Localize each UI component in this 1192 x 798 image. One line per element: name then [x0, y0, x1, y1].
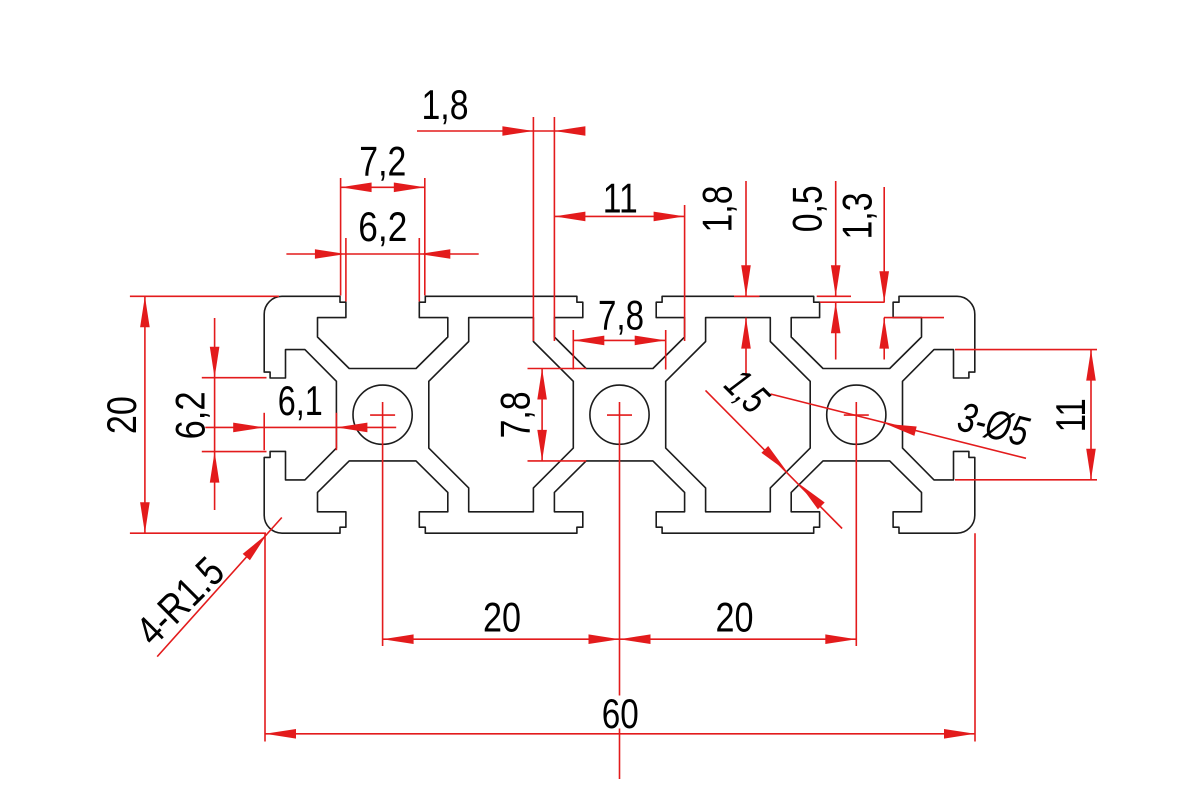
dim 7,2: [341, 186, 425, 188]
dim 1,5 diagonal: [706, 390, 843, 528]
svg-text:7,8: 7,8: [492, 391, 539, 438]
ext line 11 top right: [684, 205, 686, 341]
ext lines 6,1: [263, 413, 265, 450]
svg-text:1,8: 1,8: [422, 81, 469, 128]
svg-text:11: 11: [1047, 398, 1094, 432]
dim 1,8 top: [417, 130, 585, 132]
ext lines 1,8 top: [532, 117, 534, 341]
svg-text:20: 20: [98, 396, 145, 434]
dim 0,5: [835, 181, 837, 296]
dim 1,3: [883, 187, 885, 302]
closed web cavity between cell 1 and 2: [429, 318, 574, 512]
dim 11 right: [1090, 350, 1092, 480]
ext lines 20 left: [130, 295, 279, 297]
dim 11 top: [554, 215, 684, 217]
dim 60: [265, 733, 975, 735]
ext ticks 7,8 vert: [528, 368, 587, 370]
profile outer outline with T-slots: [264, 296, 975, 533]
dim 6,2 left: [214, 318, 216, 510]
svg-text:1,5: 1,5: [716, 360, 779, 423]
svg-text:1,8: 1,8: [694, 186, 741, 233]
svg-text:0,5: 0,5: [784, 185, 831, 232]
dim 7,8 horiz: [573, 339, 665, 341]
leader 4-R1.5: [157, 518, 282, 657]
svg-text:20: 20: [483, 593, 521, 640]
ext lines 60: [264, 533, 266, 741]
dim 6,2 top: [286, 253, 478, 255]
dim 20 bottom 1: [383, 638, 620, 640]
dim 20 left: [144, 296, 146, 533]
svg-text:3-Ø5: 3-Ø5: [953, 393, 1034, 456]
ext lines 7,2: [340, 178, 342, 296]
svg-text:60: 60: [602, 690, 639, 737]
ext lines 6,2 top: [345, 238, 347, 302]
centerline hole3: [855, 402, 857, 646]
ext lines 7,8 horiz: [572, 330, 574, 370]
centerline hole2: [619, 402, 621, 696]
ticks 1,8 / 0,5 / 1,3 right: [734, 295, 760, 297]
centerline hole1: [382, 402, 384, 646]
leader 3-O5: [771, 394, 1027, 458]
svg-text:7,2: 7,2: [359, 137, 406, 184]
svg-text:1,3: 1,3: [834, 193, 881, 240]
ext lines 6,2 left: [202, 377, 267, 379]
dim 7,8 vert: [541, 369, 543, 461]
hole 1: [353, 385, 412, 444]
closed web cavity between cell 2 and 3: [666, 318, 811, 512]
dim 1,8 vert right: [745, 181, 747, 296]
hole 3: [827, 385, 886, 444]
dim 6,1: [205, 426, 396, 428]
ext lines 11 right: [955, 349, 1097, 351]
dim 20 bottom 2: [620, 638, 857, 640]
svg-text:6,2: 6,2: [358, 203, 407, 250]
svg-text:6,2: 6,2: [167, 391, 214, 439]
svg-text:20: 20: [716, 593, 754, 640]
svg-text:4-R1.5: 4-R1.5: [126, 547, 233, 654]
svg-text:7,8: 7,8: [598, 291, 644, 338]
svg-text:11: 11: [603, 175, 638, 222]
hole 2: [590, 385, 649, 444]
svg-text:6,1: 6,1: [278, 377, 323, 424]
